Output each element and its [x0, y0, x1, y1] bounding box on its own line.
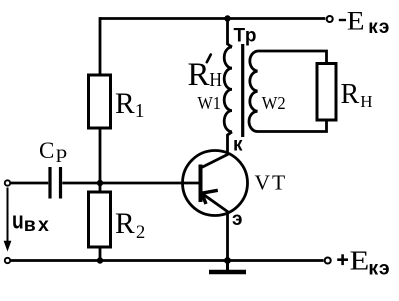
node bottom-left junction [97, 257, 103, 263]
wire emitter to ground [226, 213, 229, 262]
wire top rail [100, 17, 325, 20]
wire bottom rail [11, 259, 324, 262]
plus sign of +Eke [337, 258, 348, 261]
transistor VT emitter line [203, 194, 230, 213]
svg-text:u: u [12, 207, 24, 235]
wire R2 to bottom rail [99, 247, 102, 261]
transformer core [241, 44, 244, 137]
wire W1 top tap [228, 19, 233, 48]
svg-text:W1: W1 [198, 93, 221, 113]
svg-text:R: R [115, 208, 135, 240]
wire collector to W1 [228, 132, 233, 154]
svg-text:р: р [56, 143, 67, 162]
node W1 top junction [224, 15, 230, 21]
svg-text:кэ: кэ [368, 257, 390, 279]
resistor R1 [89, 75, 111, 128]
svg-text:кэ: кэ [368, 17, 391, 38]
wire input to capacitor [11, 182, 49, 185]
svg-text:C: C [39, 138, 54, 163]
label u_vx [12, 207, 51, 236]
terminal input top [5, 180, 10, 185]
svg-text:E: E [350, 246, 370, 276]
svg-text:R: R [341, 79, 360, 110]
svg-text:R: R [115, 88, 135, 120]
source u_vx arrow [7, 188, 9, 244]
ground stub [226, 261, 229, 271]
svg-text:2: 2 [136, 223, 145, 243]
svg-text:E: E [347, 6, 365, 35]
wire capacitor to base [62, 182, 198, 185]
node emitter-ground junction [224, 257, 231, 264]
wire W2 bottom [258, 119, 327, 132]
svg-text:1: 1 [135, 101, 145, 122]
terminal +Eke [325, 258, 331, 264]
inductor W1 winding [224, 47, 232, 132]
terminal -Eke [327, 16, 333, 22]
resistor RH [317, 64, 336, 121]
svg-text:VT: VT [255, 171, 288, 195]
capacitor Cp [48, 167, 51, 199]
inductor W2 winding [249, 51, 258, 132]
transistor VT base bar [199, 165, 203, 203]
transistor VT collector line [201, 154, 229, 168]
minus sign of -Eke [339, 19, 346, 21]
svg-text:Тр: Тр [234, 26, 258, 47]
svg-text:W2: W2 [262, 93, 286, 113]
ground bar [209, 270, 246, 275]
transistor VT emitter arrow [202, 190, 218, 193]
svg-text:к: к [233, 135, 243, 156]
resistor R2 [89, 192, 111, 247]
wire R1 to base node [99, 128, 102, 193]
transistor VT circle [183, 151, 248, 216]
svg-text:H: H [360, 92, 372, 111]
svg-text:H: H [209, 69, 222, 92]
node base junction [97, 180, 103, 186]
wire top-left vertical [99, 17, 102, 76]
svg-text:вх: вх [24, 214, 51, 236]
svg-text:э: э [232, 209, 243, 230]
terminal input bottom [5, 258, 10, 263]
wire W2 top [258, 51, 327, 65]
